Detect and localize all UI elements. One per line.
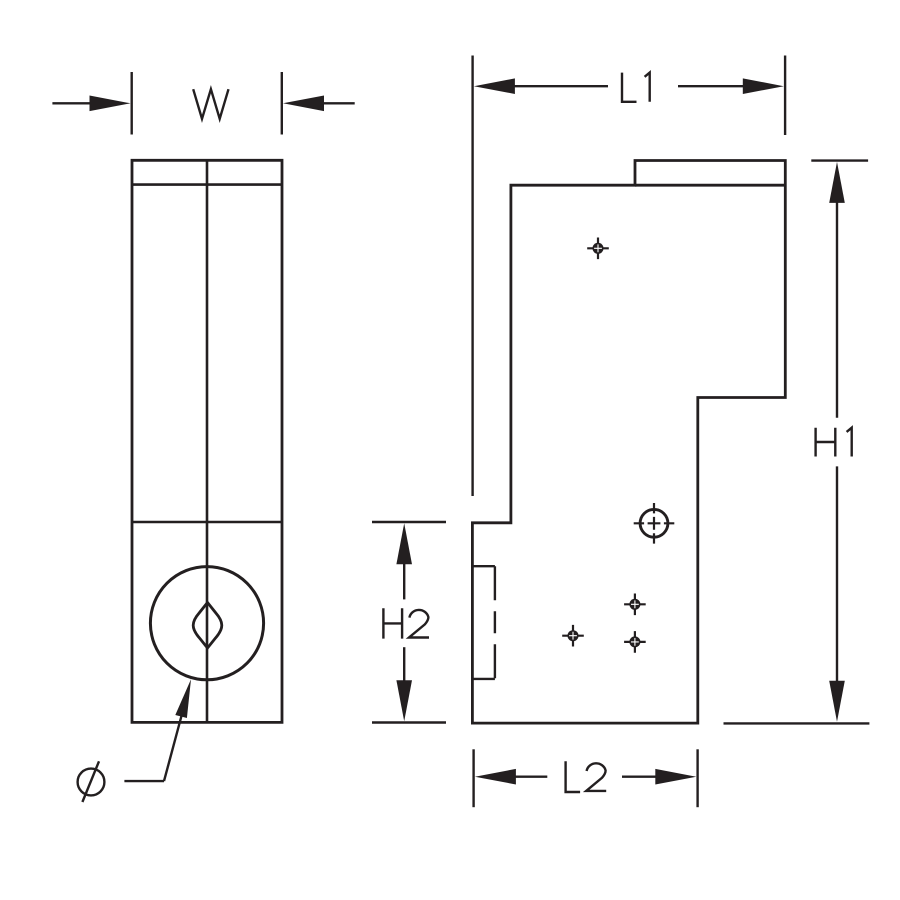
dimension L2 arrow left: [475, 769, 516, 785]
target mark A: [587, 238, 609, 260]
diameter leader horizontal: [124, 780, 164, 782]
side view outline: [472, 161, 785, 724]
target mark E: [624, 631, 646, 653]
dimension L1 leader line right: [678, 85, 745, 87]
dimension L1 leader line left: [510, 85, 608, 87]
dimension W extension line left: [130, 72, 132, 135]
diameter leader arrow: [175, 679, 191, 718]
dimension H1 arrow bottom: [829, 681, 845, 722]
label W: [193, 89, 228, 119]
dimension L2 leader line right: [622, 776, 660, 778]
target mark B large: [634, 503, 675, 544]
dimension L2 extension line right: [696, 749, 698, 807]
dimension L1 extension line left: [471, 56, 473, 497]
dimension L1 extension line right: [784, 56, 786, 136]
dimension H2 extension line top: [372, 521, 446, 523]
diameter leader diagonal: [164, 714, 182, 781]
front view vertical center line: [206, 160, 209, 722]
dimension H1 extension line top: [811, 159, 868, 161]
dimension H1 arrow top: [829, 162, 845, 203]
front view body outline: [132, 160, 282, 722]
dimension H2 extension line bottom: [372, 721, 446, 723]
dimension H1 extension line bottom: [724, 722, 870, 724]
diameter symbol slash: [82, 761, 99, 802]
dimension W arrow right: [283, 96, 324, 112]
target mark C: [624, 594, 646, 616]
dimension W arrow left: [90, 96, 131, 112]
dimension L1 arrow right: [743, 78, 784, 94]
dimension H1 leader line bottom: [836, 466, 838, 684]
front view mid step line: [132, 521, 282, 524]
hidden slot bottom edge: [472, 678, 495, 680]
hidden slot top edge: [472, 565, 495, 567]
dimension L2 arrow right: [655, 769, 696, 785]
dimension H2 leader line top: [403, 560, 405, 599]
label L1: [622, 73, 650, 102]
label L2: [566, 761, 607, 792]
dimension W leader line right: [319, 102, 355, 104]
label H2: [383, 608, 429, 638]
lens insert: [193, 603, 222, 649]
dimension H2 arrow top: [396, 523, 412, 564]
diameter symbol: [78, 769, 105, 796]
dimension H1 leader line top: [836, 198, 838, 418]
dimension H2 leader line bottom: [403, 647, 405, 684]
dimension L1 arrow left: [474, 78, 515, 94]
dimension W leader line left: [52, 102, 95, 104]
side view top edge under tab: [635, 184, 785, 187]
front view top edge line: [132, 183, 282, 186]
dimension L2 leader line left: [511, 776, 547, 778]
hole circle: [150, 567, 263, 680]
target mark D: [562, 625, 584, 647]
dimension H2 arrow bottom: [396, 680, 412, 721]
label H1: [816, 428, 852, 457]
dimension L2 extension line left: [472, 749, 474, 807]
hidden slot dashed line: [494, 566, 496, 679]
dimension W extension line right: [281, 72, 283, 135]
